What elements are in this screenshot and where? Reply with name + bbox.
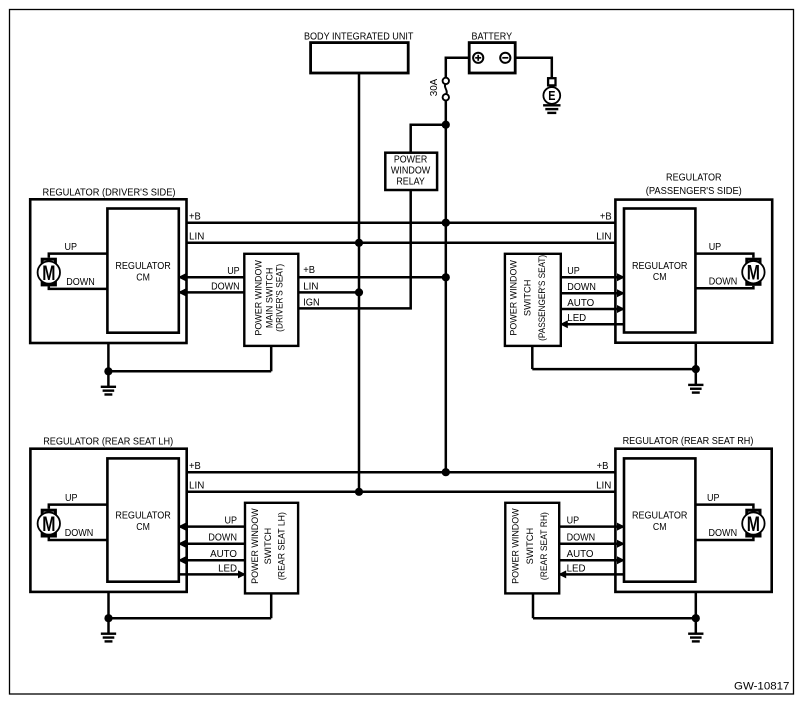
motor M (rear seat RH) (742, 510, 764, 536)
wire: relay output to IGN of main switch (298, 190, 410, 309)
svg-text:(REAR SEAT RH): (REAR SEAT RH) (539, 512, 549, 580)
fuse 30A (429, 78, 449, 101)
svg-text:REGULATOR: REGULATOR (115, 261, 171, 272)
svg-text:M: M (747, 262, 760, 285)
svg-text:WINDOW: WINDOW (391, 166, 431, 177)
wire: ground (passenger's side) (532, 343, 696, 385)
wire: LIN trunk from body integrated unit (358, 73, 361, 492)
svg-text:+B: +B (600, 211, 612, 222)
svg-text:DOWN: DOWN (208, 533, 237, 544)
junction: ground (driver's side) (104, 367, 112, 375)
junction: rear +B bus / +B trunk (442, 468, 450, 476)
wire: main switch LIN to trunk (298, 291, 359, 294)
wire: motor UP (rear seat RH) (695, 493, 753, 509)
svg-text:REGULATOR: REGULATOR (632, 261, 688, 272)
motor M (passenger's side) (742, 259, 764, 284)
svg-text:GW-10817: GW-10817 (734, 680, 789, 692)
wire: switch UP (driver's side) (178, 266, 245, 281)
wire: switch UP (passenger's side) (561, 266, 625, 281)
wire: battery positive to fuse (446, 58, 469, 78)
svg-text:REGULATOR: REGULATOR (666, 172, 722, 183)
svg-text:30A: 30A (429, 78, 440, 96)
wire: motor DOWN (passenger's side) (695, 276, 753, 288)
wire: ground (rear seat RH) (533, 592, 696, 634)
battery positive terminal (473, 53, 483, 63)
svg-text:REGULATOR: REGULATOR (632, 511, 688, 522)
regulator (rear seat RH) label (623, 436, 754, 447)
svg-text:M: M (42, 513, 55, 536)
svg-text:AUTO: AUTO (567, 549, 594, 560)
svg-text:LIN: LIN (189, 232, 204, 243)
wire: motor DOWN (driver's side) (49, 277, 108, 289)
svg-text:REGULATOR (REAR SEAT LH): REGULATOR (REAR SEAT LH) (43, 437, 173, 448)
svg-text:LIN: LIN (303, 281, 318, 292)
junction: rear LIN bus / LIN trunk (355, 488, 363, 496)
svg-text:POWER WINDOW: POWER WINDOW (250, 508, 260, 584)
battery B1 (469, 31, 515, 73)
svg-text:SWITCH: SWITCH (525, 528, 535, 565)
svg-text:REGULATOR: REGULATOR (115, 511, 171, 522)
regulator (rear seat RH) outer box (615, 449, 771, 592)
svg-text:(DRIVER'S SEAT): (DRIVER'S SEAT) (275, 264, 285, 332)
svg-text:+B: +B (303, 265, 315, 276)
svg-text:+B: +B (189, 461, 201, 472)
svg-text:CM: CM (653, 522, 667, 533)
wire: switch AUTO (passenger's side) (561, 298, 625, 313)
junction: front +B bus / +B trunk (442, 219, 450, 227)
wire: motor UP (rear seat LH) (49, 493, 108, 509)
svg-text:AUTO: AUTO (567, 298, 594, 309)
junction: ground (passenger's side) (692, 365, 700, 373)
regulator CM (rear seat RH) (624, 458, 695, 581)
svg-text:E: E (548, 88, 555, 103)
svg-text:SWITCH: SWITCH (523, 280, 533, 317)
regulator CM (passenger's side) (624, 209, 695, 333)
power window switch (passenger's side) (505, 254, 561, 346)
svg-text:DOWN: DOWN (65, 528, 94, 539)
wire: switch LED (passenger's side) (560, 313, 624, 328)
svg-text:UP: UP (227, 266, 240, 277)
junction: ground (rear seat LH) (104, 614, 112, 622)
svg-text:UP: UP (225, 516, 238, 527)
wire: front LIN bus (179, 242, 624, 245)
power window switch (rear seat LH) (245, 503, 298, 594)
svg-text:BATTERY: BATTERY (472, 31, 513, 42)
svg-text:DOWN: DOWN (66, 277, 95, 288)
wire: switch DOWN (rear seat LH) (178, 533, 245, 548)
svg-text:POWER WINDOW: POWER WINDOW (509, 260, 519, 336)
ground (driver's side) (101, 387, 116, 395)
svg-text:CM: CM (136, 272, 150, 283)
wire: switch UP (rear seat LH) (178, 516, 245, 531)
svg-text:BODY INTEGRATED UNIT: BODY INTEGRATED UNIT (304, 31, 414, 42)
svg-text:DOWN: DOWN (709, 276, 738, 287)
svg-text:LIN: LIN (189, 481, 204, 492)
svg-text:DOWN: DOWN (567, 533, 596, 544)
svg-text:LIN: LIN (596, 481, 611, 492)
battery negative terminal (500, 53, 510, 63)
regulator (driver's side) outer box (30, 199, 186, 343)
body integrated unit U1 (304, 31, 414, 73)
regulator (rear seat LH) label (43, 437, 173, 448)
wire: rear +B bus (179, 471, 624, 474)
svg-text:DOWN: DOWN (567, 282, 596, 293)
power window switch (driver's side) (244, 254, 298, 346)
svg-text:POWER: POWER (394, 155, 427, 166)
regulator CM (rear seat LH) (107, 458, 178, 581)
svg-text:POWER WINDOW: POWER WINDOW (511, 508, 521, 584)
ground (rear seat RH) (688, 634, 703, 642)
svg-text:(REAR SEAT LH): (REAR SEAT LH) (277, 512, 287, 580)
ground (rear seat LH) (101, 634, 116, 642)
svg-text:CM: CM (653, 272, 667, 283)
svg-text:UP: UP (709, 242, 722, 253)
svg-text:AUTO: AUTO (210, 549, 237, 560)
svg-text:LIN: LIN (596, 232, 611, 243)
regulator (passenger's side) label (646, 172, 742, 197)
svg-text:REGULATOR (REAR SEAT RH): REGULATOR (REAR SEAT RH) (623, 436, 754, 447)
svg-text:SWITCH: SWITCH (263, 528, 273, 565)
wire: switch UP (rear seat RH) (559, 516, 625, 531)
svg-text:LED: LED (567, 563, 586, 574)
svg-text:MAIN SWITCH: MAIN SWITCH (264, 268, 274, 329)
wire: main switch +B to trunk (298, 276, 446, 279)
wire: +B trunk (fuse to rear bus) (445, 101, 448, 473)
junction: ground (rear seat RH) (692, 614, 700, 622)
svg-text:LED: LED (567, 313, 586, 324)
junction: front LIN bus / LIN trunk (355, 239, 363, 247)
junction: relay feed on +B trunk (442, 121, 450, 129)
wire: switch LED (rear seat LH) (179, 563, 246, 578)
wire: switch DOWN (passenger's side) (561, 282, 625, 297)
wire: rear LIN bus (179, 491, 624, 494)
svg-text:UP: UP (65, 493, 78, 504)
svg-text:UP: UP (707, 493, 720, 504)
regulator (driver's side) label (43, 187, 176, 198)
ground E (battery earth) (543, 78, 560, 113)
svg-text:LED: LED (218, 563, 237, 574)
wire: ground (rear seat LH) (109, 592, 272, 634)
svg-text:CM: CM (136, 522, 150, 533)
wire: ground (driver's side) (108, 343, 271, 387)
svg-text:+B: +B (189, 211, 201, 222)
wire: motor DOWN (rear seat LH) (49, 528, 108, 540)
wire: battery negative to ground E (515, 58, 552, 78)
motor M (rear seat LH) (38, 510, 60, 536)
svg-text:UP: UP (65, 242, 78, 253)
power window switch (rear seat RH) (505, 503, 559, 594)
wire: front +B bus (179, 221, 624, 224)
svg-text:M: M (42, 262, 55, 285)
svg-text:UP: UP (567, 516, 580, 527)
svg-text:M: M (747, 513, 760, 536)
regulator (rear seat LH) outer box (30, 449, 186, 592)
svg-text:DOWN: DOWN (709, 528, 738, 539)
svg-text:(PASSENGER'S SEAT): (PASSENGER'S SEAT) (537, 255, 547, 341)
svg-text:DOWN: DOWN (211, 281, 240, 292)
wire: motor UP (passenger's side) (695, 242, 753, 258)
wire: switch AUTO (rear seat RH) (559, 549, 625, 564)
ground (passenger's side) (688, 385, 703, 393)
wire: switch AUTO (rear seat LH) (178, 549, 245, 564)
wire: motor DOWN (rear seat RH) (695, 528, 753, 540)
wire: switch LED (rear seat RH) (558, 563, 624, 578)
svg-text:IGN: IGN (303, 297, 320, 308)
motor M (driver's side) (38, 259, 60, 285)
wire: switch DOWN (rear seat RH) (559, 533, 625, 548)
svg-text:POWER WINDOW: POWER WINDOW (254, 260, 264, 336)
svg-text:REGULATOR (DRIVER'S SIDE): REGULATOR (DRIVER'S SIDE) (43, 187, 176, 198)
junction: main switch +B / +B trunk (442, 273, 450, 281)
svg-text:(PASSENGER'S SIDE): (PASSENGER'S SIDE) (646, 186, 742, 197)
wire: motor UP (driver's side) (49, 242, 108, 258)
svg-text:RELAY: RELAY (396, 176, 425, 187)
junction: main switch LIN / LIN trunk (355, 288, 363, 296)
regulator CM (driver's side) (107, 209, 178, 333)
relay K1: power window relay (385, 153, 437, 190)
wire: switch DOWN (driver's side) (178, 281, 245, 296)
svg-text:UP: UP (567, 266, 580, 277)
regulator (passenger's side) outer box (615, 200, 772, 343)
svg-text:+B: +B (597, 461, 609, 472)
wire: relay feed (411, 125, 446, 154)
